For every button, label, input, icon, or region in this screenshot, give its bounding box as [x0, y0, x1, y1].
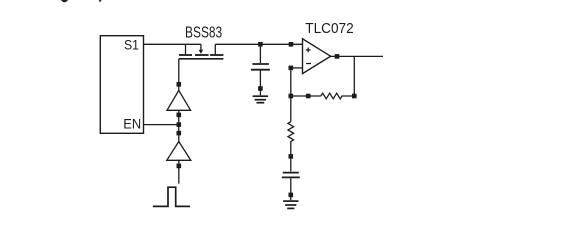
pin square op-amp + input: [289, 42, 294, 47]
wire buffer A2 input: [178, 160, 180, 183]
op-amp - sign: [306, 63, 311, 65]
wire - input node down to R2: [290, 70, 292, 122]
pin square above ground 2: [289, 193, 294, 198]
svg-text:BSS83: BSS83: [185, 25, 222, 42]
junction pin square on gate lead: [177, 82, 182, 87]
wire EN to buffer chain: [144, 124, 179, 126]
svg-text:S1: S1: [124, 37, 139, 53]
transistor Q1 BSS83 gate line: [179, 58, 224, 60]
resistor R2 (to ground): [288, 122, 294, 156]
wire feedback up to output: [353, 56, 355, 96]
transistor Q1 BSS83 bulk arrow: [199, 44, 203, 54]
transistor Q1 BSS83 source lead: [185, 44, 187, 54]
switch block U1 (S1/EN box): [100, 36, 143, 134]
ground 1: [253, 96, 269, 103]
wire S1 to Q1 source/bulk: [144, 43, 201, 45]
op-amp U2 TLC072: [303, 39, 331, 74]
pin square R1 right: [352, 94, 357, 99]
junction square EN node: [177, 122, 182, 127]
wire feedback node to R1: [291, 95, 321, 97]
cropped text fragment (comma) top: [99, 0, 101, 2]
capacitor C2 bottom lead: [290, 178, 292, 200]
transistor Q1 BSS83 drain lead: [214, 44, 216, 54]
pin square op-amp - input: [289, 66, 294, 71]
transistor Q1 BSS83 channel bars: [179, 54, 223, 56]
wire Q1 gate to buffer A1 output: [178, 59, 180, 90]
wire buffer A1 input chain: [178, 110, 180, 141]
svg-text:EN: EN: [123, 117, 141, 132]
buffer A2 (EN driver): [167, 142, 191, 161]
junction square node at C1: [258, 42, 263, 47]
ground 2: [283, 201, 298, 208]
resistor R1 (feedback): [321, 93, 354, 99]
junction square feedback node: [289, 94, 294, 99]
pin square op-amp output: [335, 54, 340, 59]
capacitor C1: [251, 64, 270, 70]
capacitor C2 top lead: [290, 159, 292, 172]
pin square R2/C2 node: [289, 154, 294, 159]
capacitor C2: [282, 173, 300, 178]
pin square above ground 1: [258, 86, 263, 91]
pulse source waveform: [153, 187, 190, 206]
pin square above buffer A2: [177, 131, 182, 136]
pin square below buffer A1: [177, 113, 182, 118]
wire op-amp output: [331, 55, 383, 57]
op-amp + sign: [306, 48, 311, 53]
pin square R1 left: [306, 94, 311, 99]
pin square below buffer A2: [177, 164, 182, 169]
svg-text:TLC072: TLC072: [305, 20, 353, 37]
buffer A1 (gate driver): [167, 90, 191, 110]
capacitor C1 bottom lead: [259, 71, 261, 96]
wire Q1 drain to op-amp + input: [215, 43, 302, 45]
wire op-amp - input: [291, 67, 303, 69]
cropped text fragment (descender) top-left: [61, 0, 67, 2]
capacitor C1 top lead: [259, 44, 261, 63]
